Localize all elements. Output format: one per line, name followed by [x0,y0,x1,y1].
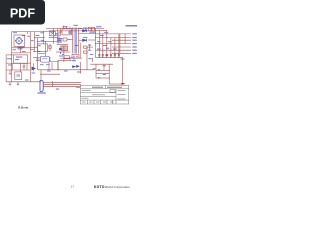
resistor R10 [49,44,51,51]
svg-text:17: 17 [71,184,75,188]
wire [80,62,82,74]
wire [37,38,39,70]
mosfet heatsink box [61,46,68,51]
wire left vertical bus [11,32,13,82]
blue components [15,29,86,91]
resistor R21 [84,46,88,48]
wire long mid horizontal [38,69,95,71]
wire [33,63,35,71]
junction dots [30,33,120,70]
wire [26,63,28,70]
wire [67,39,73,41]
wire top bus ticks [67,26,86,30]
wire [57,44,68,46]
relay box [13,55,27,64]
svg-text:World Corporation: World Corporation [105,185,130,189]
wire [87,46,93,48]
wire [91,58,93,62]
title block [80,85,129,104]
wire [49,62,58,70]
wire [88,39,96,41]
thermistor box [15,72,22,80]
diode D1 [83,30,87,32]
wire [53,28,55,44]
wire [63,46,65,62]
wire mid-left vertical [29,32,31,82]
connector wires [43,82,81,84]
EMI filter box [14,35,25,47]
transistor Q3 [32,67,35,70]
cap stub2 [9,70,12,74]
wire junction stub [26,32,28,34]
cap stub [23,63,26,70]
startup box [37,44,47,51]
ground [9,82,11,85]
wire [45,42,47,57]
wire [6,69,30,71]
small caps on output grid [98,55,120,56]
wire down to title block [121,58,123,85]
red revision mark above table [121,83,124,84]
wire [59,28,61,36]
svg-text:R.Book.: R.Book. [18,106,29,110]
schematic wires : main red network [6,26,131,88]
wire [79,28,82,30]
wire [6,54,13,56]
wire [43,31,45,44]
title block texts [82,87,126,103]
transformer primary lines [72,28,74,54]
wire [34,32,36,52]
wire [52,81,54,87]
optocoupler [73,66,76,68]
ground [17,82,19,85]
transformer core blue lines [74,28,77,54]
fan circle (line filter) [16,38,22,44]
wire [11,63,13,70]
wire IC to ground verticals [48,63,50,70]
wire [38,41,58,43]
svg-text:KOTO: KOTO [94,185,105,189]
wire [79,39,82,41]
wire [56,51,70,53]
wire output vertical main [95,28,97,58]
IC U1 [41,56,50,62]
driver box [64,56,69,59]
wire [119,34,121,53]
capacitor C8 [63,38,67,41]
wire extra left-mid rails [30,47,37,49]
wire [89,44,91,50]
wire [96,77,110,79]
wire [20,47,22,53]
wire [49,30,96,32]
junction stubs output [99,44,107,53]
wire stubs top [63,26,65,29]
wire grid verticals [98,30,100,57]
wire [80,43,82,59]
wire [34,37,45,39]
wire [96,69,110,71]
wire [12,47,30,49]
diode D2 [83,39,87,41]
resistor R22 [84,51,88,53]
wire [57,60,59,70]
wire [79,33,96,35]
PDF badge [0,0,45,25]
wire [6,62,30,64]
transformer bottom shield [72,55,79,59]
wire [124,34,126,44]
blue label blobs [7,25,137,94]
wire [96,73,109,75]
wire [12,52,31,54]
wire second top rail [12,31,49,33]
wire [60,57,82,59]
wire [86,47,88,70]
wire top bus [46,27,104,29]
cap C11 [92,27,95,31]
wire [58,59,70,61]
wire bottom rail left [6,81,41,83]
connector CN2 [40,81,43,92]
wire [40,70,42,81]
wire [20,63,22,72]
zener [60,48,63,50]
snubber box [62,29,72,35]
wire [57,28,59,42]
cap C10 [88,27,91,31]
bridge rectifier [49,31,55,36]
wire left outer vertical [5,55,7,82]
wire [40,73,60,75]
wire [49,37,59,39]
svg-text:PDF: PDF [10,7,35,21]
wire [59,32,62,42]
wire [76,87,80,89]
wire pwm left rails [33,51,41,53]
wire grid horizontals [96,29,107,31]
